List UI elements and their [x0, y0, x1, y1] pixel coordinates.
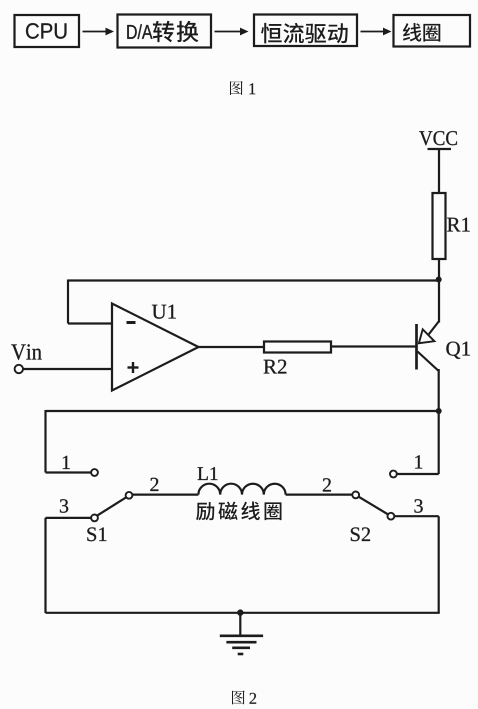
label R1 — [447, 218, 470, 232]
transistor Q1 (PNP) — [417, 322, 439, 372]
pin label 3 of S1 — [60, 499, 68, 512]
label S1 — [87, 527, 106, 541]
op-amp U1 — [112, 304, 199, 391]
node Vin input terminal — [15, 365, 23, 373]
switch S2 pole and arm — [352, 492, 388, 515]
terminal S1 contact 1 — [91, 469, 98, 476]
pin label 2 of S2 — [323, 478, 331, 491]
wire S2 contact 3 — [394, 515, 439, 517]
wire S1 contact 3 down to bottom rail — [44, 518, 46, 613]
wire S1 contact 1 — [46, 471, 92, 473]
power rail VCC bar — [428, 148, 452, 150]
switch S1 pole and arm — [97, 492, 133, 516]
wire L1 to S2 pole — [286, 494, 353, 496]
label Vin — [11, 344, 41, 360]
node feedback junction — [436, 277, 442, 283]
block constant current drive — [254, 15, 357, 47]
wire VCC to R1 — [438, 148, 440, 193]
pin label 3 of S2 — [414, 499, 422, 512]
wire collector rail to S1 side — [46, 410, 439, 473]
wire R1 to Q1 emitter — [438, 259, 440, 323]
block CPU — [15, 15, 80, 47]
wire feedback from emitter node to U1 inverting input — [68, 280, 439, 324]
wire S2 contact 1 — [397, 473, 439, 475]
wire Q1 collector down to rail — [438, 369, 440, 411]
arrow D/A block to constant-current-drive block — [215, 28, 249, 36]
wire S1 contact 3 — [46, 517, 92, 519]
label L1 — [198, 467, 218, 480]
pin label 1 of S1 — [63, 456, 70, 469]
pin label 1 of S2 — [415, 455, 422, 468]
label S2 — [351, 527, 370, 541]
terminal S1 contact 3 — [91, 515, 98, 522]
wire S2 contact 3 down to bottom rail — [438, 516, 440, 613]
label Q1 — [446, 342, 470, 359]
caption figure 1 — [230, 81, 255, 95]
wire collector rail down to S2 contact 1 — [438, 411, 440, 474]
power rail VCC label — [419, 131, 457, 145]
wire U1 output to R2 — [199, 346, 265, 348]
wire S1 pole to L1 — [132, 494, 198, 496]
label R2 — [264, 360, 287, 374]
label U1 — [152, 305, 176, 319]
wire Vin to U1 non-inverting input — [23, 368, 112, 370]
arrow constant-current-drive block to coil block — [361, 28, 392, 36]
wire bottom ground rail — [46, 612, 440, 614]
terminal S2 contact 3 — [388, 513, 395, 520]
resistor R1 — [433, 193, 446, 259]
label excitation coil — [196, 502, 281, 521]
terminal S2 contact 1 — [390, 471, 397, 478]
inductor L1 excitation coil — [198, 484, 285, 495]
pin label 2 of S1 — [150, 478, 158, 491]
node collector junction — [436, 408, 442, 414]
node ground junction — [237, 609, 243, 615]
resistor R2 — [264, 342, 331, 353]
ground — [220, 613, 263, 654]
block D/A converter — [118, 15, 212, 48]
block coil — [394, 15, 471, 47]
wire R2 to Q1 base — [331, 345, 416, 347]
arrow CPU to D/A block — [83, 28, 115, 36]
caption figure 2 — [232, 690, 256, 704]
